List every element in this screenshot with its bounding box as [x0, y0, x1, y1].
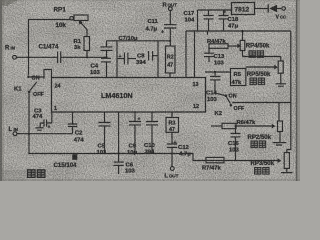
capacitor C15 — [54, 154, 78, 169]
ground RP2 — [273, 143, 287, 145]
capacitor C5 — [97, 112, 111, 156]
terminal R OUT — [163, 3, 178, 11]
capacitor C6 — [114, 112, 136, 175]
capacitor C16 — [228, 125, 241, 161]
terminal R IN — [5, 46, 16, 60]
wire R1 to input node — [86, 51, 88, 58]
capacitor C2 — [68, 112, 85, 144]
terminal L IN — [9, 127, 19, 136]
label RP2/50k — [248, 135, 272, 141]
label R1 3k — [74, 39, 82, 51]
potentiometer RP2 — [278, 103, 283, 143]
scan edge artifacts — [0, 0, 2, 181]
capacitor C4 — [90, 41, 113, 78]
junction rail/input — [27, 56, 29, 58]
pin 24 — [55, 84, 61, 90]
terminal L OUT — [165, 167, 179, 180]
pin 13 — [193, 82, 199, 88]
wire top mid horizontal — [107, 40, 171, 42]
ground RP3 — [281, 172, 293, 174]
junction rail/LIN — [28, 133, 30, 135]
wire pin24 loop — [30, 70, 52, 79]
resistor R7 — [202, 157, 224, 171]
wire K2 to RP2 — [232, 102, 291, 104]
potentiometer RP1 — [70, 15, 88, 30]
wire R IN to C1 — [17, 56, 57, 58]
label 平衡 — [251, 141, 266, 148]
wire top-left rail — [28, 19, 70, 21]
ground C3 — [35, 123, 43, 130]
label RP5/50k — [247, 72, 271, 78]
resistor R3 — [166, 112, 179, 144]
junction R2/top wire — [169, 40, 171, 42]
wire left rail lower — [28, 93, 30, 154]
wire C1 to C4 node — [61, 56, 107, 58]
potentiometer RP5 — [278, 57, 283, 84]
regulator 7812 — [232, 3, 255, 15]
capacitor C13 — [204, 48, 225, 66]
potentiometer RP3 — [284, 150, 289, 173]
capacitor C8 — [136, 51, 158, 66]
capacitor C10 — [144, 112, 158, 156]
label RP3/50k — [251, 161, 275, 167]
wire right rail — [287, 31, 291, 150]
capacitor C7 — [117, 36, 138, 65]
capacitor C9 — [127, 112, 141, 156]
ic U1 LM4610N — [52, 78, 206, 113]
capacitor C1 — [39, 44, 61, 64]
wire ground bus bottom — [29, 154, 278, 161]
switch K2 — [215, 93, 245, 117]
ground stub bus — [207, 31, 209, 35]
wire vertical pin15 — [185, 31, 187, 78]
ground RP5 — [276, 84, 287, 86]
label 10k — [56, 22, 67, 29]
pin 1 — [54, 106, 57, 112]
junction C4/input wire — [105, 56, 107, 58]
wire vertical pin20 — [116, 41, 118, 78]
capacitor C18 — [219, 10, 240, 32]
resistor R5 — [231, 69, 246, 87]
wire R5 to RP5 wiper — [246, 65, 278, 70]
label 高音 — [255, 168, 270, 175]
wire L IN to C2 — [17, 133, 73, 135]
resistor R2 — [166, 46, 176, 78]
terminal Vcc — [276, 7, 287, 21]
resistor R6 — [211, 120, 275, 129]
capacitor C12 — [167, 140, 191, 166]
label 图四 figure caption — [28, 170, 45, 178]
wire vertical pin14 — [194, 31, 196, 78]
wire 7812 input — [198, 10, 233, 31]
wire 7812 output — [255, 8, 268, 10]
wire vertical pin17 — [157, 41, 159, 78]
label RP4/50k — [246, 43, 270, 49]
resistor R1 — [84, 37, 90, 51]
label LM4610N — [101, 91, 133, 100]
pin 12 — [193, 104, 199, 110]
wire top right bus — [186, 30, 291, 32]
switch K1 — [14, 76, 44, 98]
resistor R4 — [207, 39, 241, 48]
capacitor C3 — [33, 109, 52, 131]
label RP1 — [54, 7, 67, 14]
capacitor C17 — [184, 10, 214, 31]
diode D1 — [268, 5, 281, 13]
label 音量 — [250, 78, 265, 85]
wire RP3 wiper arrowhead — [278, 158, 282, 163]
capacitor C14 — [206, 71, 221, 103]
capacitor C11 — [146, 10, 177, 46]
label 低音 — [249, 51, 264, 58]
wire RP4 bottom to RP5 top — [243, 56, 281, 58]
wire RP1 wiper to R1 — [86, 30, 88, 37]
potentiometer RP4 — [240, 30, 245, 57]
wire left rail upper — [28, 19, 30, 75]
wire pin13 row — [205, 71, 231, 73]
junction R1 node — [86, 56, 88, 58]
